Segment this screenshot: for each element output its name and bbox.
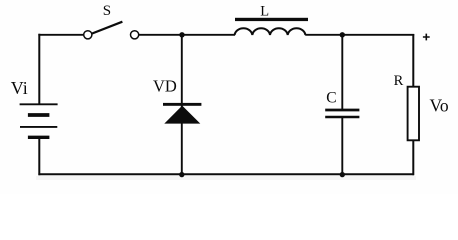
wire from inductor to capacitor node bbox=[305, 34, 342, 36]
capacitor C bottom plate bbox=[325, 116, 359, 118]
diode VD cathode bar bbox=[163, 103, 201, 106]
svg-text:Vo: Vo bbox=[430, 95, 449, 115]
svg-text:VD: VD bbox=[153, 76, 177, 95]
plus polarity mark bbox=[423, 34, 430, 41]
wire from capacitor node to top-right corner bbox=[342, 34, 414, 36]
wire from switch to diode node bbox=[139, 34, 182, 36]
wire right vertical (R top lead) bbox=[412, 34, 414, 87]
battery Vi plate 2 short thick bbox=[28, 113, 50, 117]
battery Vi plate 3 long bbox=[20, 126, 57, 128]
wire bottom rail bbox=[38, 173, 414, 175]
wire capacitor branch vertical bbox=[341, 35, 343, 175]
wire bottom rail scan shadow bbox=[36, 176, 416, 180]
svg-text:L: L bbox=[260, 4, 269, 20]
battery Vi plate 4 short thick bbox=[28, 136, 50, 139]
node junction dot at diode bottom bbox=[179, 172, 184, 177]
svg-text:C: C bbox=[326, 89, 336, 106]
inductor L winding arcs bbox=[235, 28, 306, 35]
inductor L core bar bbox=[235, 18, 308, 21]
svg-text:R: R bbox=[394, 73, 404, 89]
capacitor C top plate bbox=[325, 109, 359, 112]
node junction dot at capacitor bottom bbox=[340, 172, 345, 177]
wire from diode node to inductor bbox=[182, 34, 235, 36]
node junction dot at diode top bbox=[179, 32, 184, 37]
svg-text:Vi: Vi bbox=[11, 78, 28, 98]
diode VD triangle bbox=[164, 106, 200, 124]
resistor R body rectangle bbox=[408, 87, 419, 141]
wire top-left segment from left corner to switch bbox=[38, 34, 83, 35]
wire diode branch vertical bbox=[181, 35, 183, 175]
switch S left contact circle bbox=[84, 31, 92, 39]
wire left vertical (Vi bottom lead) bbox=[38, 139, 40, 176]
battery Vi plate 1 long bbox=[20, 103, 58, 105]
node junction dot at capacitor top bbox=[340, 32, 345, 37]
switch S lever bbox=[92, 22, 123, 34]
wire left vertical (Vi top lead) bbox=[38, 34, 40, 104]
wire right vertical (R bottom lead) bbox=[412, 140, 414, 175]
switch S right contact circle bbox=[131, 31, 139, 39]
svg-text:S: S bbox=[103, 3, 111, 19]
